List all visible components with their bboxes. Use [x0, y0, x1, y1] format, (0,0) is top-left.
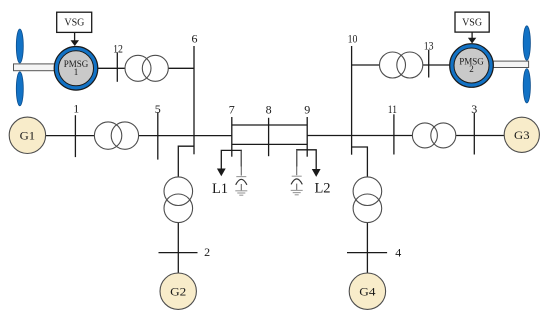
- svg-text:1: 1: [73, 102, 79, 116]
- svg-text:G3: G3: [514, 128, 530, 142]
- svg-text:G2: G2: [170, 284, 186, 298]
- svg-text:11: 11: [388, 102, 397, 116]
- svg-text:VSG: VSG: [64, 18, 84, 29]
- svg-text:L1: L1: [212, 181, 228, 197]
- svg-text:7: 7: [229, 103, 235, 117]
- svg-text:13: 13: [424, 39, 434, 53]
- svg-text:2: 2: [469, 64, 474, 74]
- svg-text:4: 4: [395, 245, 401, 259]
- svg-text:9: 9: [304, 103, 310, 117]
- svg-text:6: 6: [192, 32, 198, 46]
- svg-text:1: 1: [74, 67, 79, 77]
- svg-text:3: 3: [471, 102, 477, 116]
- svg-text:L2: L2: [314, 181, 330, 197]
- svg-text:VSG: VSG: [462, 18, 482, 29]
- svg-text:10: 10: [348, 32, 358, 46]
- svg-text:12: 12: [113, 41, 123, 55]
- svg-text:5: 5: [155, 102, 161, 116]
- svg-text:G1: G1: [20, 128, 36, 142]
- svg-text:8: 8: [266, 103, 272, 117]
- svg-text:2: 2: [204, 245, 210, 259]
- svg-text:G4: G4: [359, 284, 375, 298]
